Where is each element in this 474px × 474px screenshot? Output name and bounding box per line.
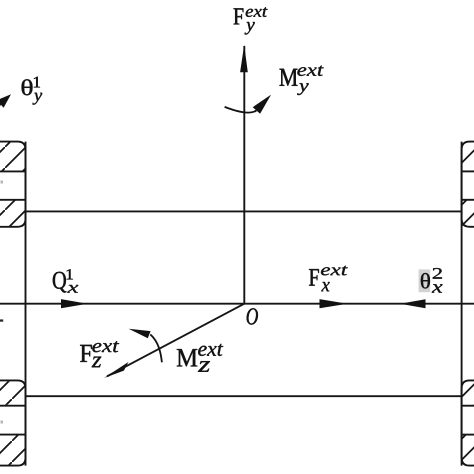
label glyphs th_y 1 xyxy=(34,77,40,88)
bearing B1 lower band line 1 xyxy=(0,405,26,407)
moment M_z arc xyxy=(150,334,162,362)
arrow theta_y head xyxy=(0,94,11,108)
wire shaft top edge xyxy=(26,210,462,212)
bearing B2 upper hatch top band xyxy=(462,143,474,171)
label glyphs F_x F xyxy=(309,269,319,286)
z axis xyxy=(107,304,244,377)
bearing B2 lower band line 2 xyxy=(462,434,474,436)
label glyphs M_z M xyxy=(177,349,198,366)
label glyphs Q_x x xyxy=(67,285,78,293)
bearing B2 upper band line 2 xyxy=(462,199,474,201)
label glyphs F_x ext xyxy=(321,266,348,276)
bearing B2 upper hatch bottom band xyxy=(462,201,474,227)
bearing block B2 lower (right) xyxy=(462,380,474,465)
arrow Q_x head xyxy=(61,299,88,308)
bearing B1 upper band line 1 xyxy=(0,170,26,172)
label glyphs th_y theta xyxy=(22,79,33,95)
wire right vertical (bearing 2 face) xyxy=(461,142,463,466)
highlight box behind theta_x xyxy=(419,269,431,292)
label glyphs M_y ext xyxy=(297,66,323,76)
label glyphs th_x 2 xyxy=(433,268,442,279)
bearing B2 lower band line 1 xyxy=(462,405,474,407)
label glyphs O origin xyxy=(247,308,258,324)
bearing block B1 upper (left) xyxy=(0,142,26,227)
arrow F_x head xyxy=(320,299,348,308)
y axis xyxy=(243,46,245,304)
wire shaft bottom edge xyxy=(26,395,462,397)
bearing B1 upper hatch bottom band xyxy=(0,201,25,227)
bearing B1 lower hatch top band xyxy=(0,381,25,405)
arrow F_y head xyxy=(240,45,248,73)
arrow theta_x head xyxy=(400,299,426,308)
label glyphs M_y y xyxy=(297,83,309,95)
bearing B1 lower hatch bottom band xyxy=(0,435,25,465)
faint mark in B1 lower xyxy=(1,421,4,424)
label glyphs Q_x 1 xyxy=(67,269,73,279)
bearing block B1 lower (left) xyxy=(0,380,26,465)
moment M_z head xyxy=(129,329,151,339)
label glyphs Q_x Q xyxy=(53,272,67,293)
moment M_y arc xyxy=(225,107,257,113)
faint mark in B1 upper xyxy=(1,181,4,184)
label glyphs F_y y xyxy=(245,22,255,35)
bearing B1 lower band line 2 xyxy=(0,434,26,436)
label glyphs F_z F xyxy=(80,345,92,362)
bearing block B2 upper (right) xyxy=(462,142,474,227)
label glyphs F_z ext xyxy=(92,341,119,352)
bearing B2 upper band line 1 xyxy=(462,170,474,172)
stray mark at left edge xyxy=(0,319,3,321)
arrow theta_y tail xyxy=(0,104,1,113)
x axis xyxy=(0,303,474,305)
label glyphs F_y F xyxy=(234,8,244,24)
bearing B2 lower hatch top band xyxy=(462,381,474,405)
moment M_y head xyxy=(253,95,271,114)
bearing B1 upper hatch top band xyxy=(0,143,25,171)
label glyphs M_z z xyxy=(198,361,210,372)
label glyphs F_x x xyxy=(321,282,329,291)
bearing B1 upper band line 2 xyxy=(0,199,26,201)
label glyphs th_x theta xyxy=(421,273,430,289)
label glyphs F_y ext xyxy=(246,7,268,17)
label glyphs th_y y xyxy=(33,93,43,105)
label glyphs th_x x xyxy=(432,284,443,292)
arrow F_z head xyxy=(104,362,129,378)
wire left vertical (bearing 1 face) xyxy=(25,142,27,466)
label glyphs M_z ext xyxy=(198,344,223,356)
label glyphs F_z z xyxy=(92,357,102,368)
bearing B2 lower hatch bottom band xyxy=(462,435,474,465)
label glyphs M_y M xyxy=(280,69,298,86)
